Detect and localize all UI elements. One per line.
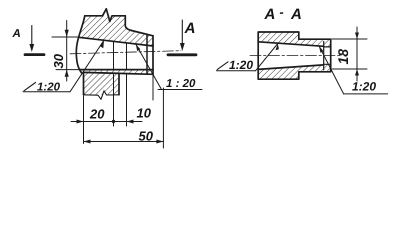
hatch lower region	[80, 70, 153, 95]
hatch section top band	[258, 32, 324, 46]
hatch upper region	[79, 16, 153, 46]
dimension 30 extension bottom	[56, 69, 80, 71]
hatch section bottom-right sliver	[324, 64, 331, 72]
cutting line A left	[25, 53, 44, 56]
svg-text:10: 10	[137, 106, 152, 121]
svg-text:-: -	[279, 5, 283, 20]
svg-text:30: 30	[51, 53, 66, 68]
hole bottom wall	[80, 69, 153, 71]
section outer outline	[258, 32, 331, 79]
svg-text:A: A	[184, 20, 196, 37]
section slope label right 1:20	[319, 46, 388, 94]
cutting line A right	[168, 53, 196, 56]
dimension 18 line with outside arrows	[355, 27, 359, 81]
dimension 18 extensions	[332, 38, 367, 40]
left edge arc	[76, 16, 85, 73]
section slope label left	[216, 44, 279, 72]
arrow A right	[180, 20, 185, 51]
section hole cylindrical top	[324, 46, 331, 48]
svg-text:50: 50	[139, 129, 154, 144]
section hole inner step vertical	[323, 42, 325, 70]
slope label right 1:20 with leader	[136, 44, 202, 90]
boss top sloped edge	[132, 31, 154, 36]
section centerline	[250, 55, 340, 57]
svg-text:1 : 20: 1 : 20	[166, 78, 196, 90]
hatch section bottom band	[258, 65, 324, 79]
bottom break line	[84, 91, 120, 100]
taper end inner edge	[146, 34, 148, 74]
arrow A left	[29, 26, 34, 52]
hole top wall (tapered 1:20)	[79, 37, 153, 46]
lower column right edge	[118, 74, 120, 95]
svg-text:A: A	[12, 28, 21, 40]
boss bottom edge	[84, 72, 154, 74]
section hole top wall	[258, 42, 324, 47]
hatch section top-right sliver	[324, 39, 331, 47]
dimension 50 right extension	[162, 88, 164, 148]
section hole bottom wall	[258, 65, 324, 70]
dimension line 50	[84, 140, 164, 144]
lower column left edge	[83, 72, 85, 94]
svg-text:1:20: 1:20	[352, 80, 376, 94]
right face lower extension	[152, 76, 154, 101]
svg-text:20: 20	[89, 107, 105, 122]
right face	[152, 36, 154, 75]
dimension line 20/10	[71, 120, 142, 124]
svg-text:1:20: 1:20	[229, 58, 253, 72]
top edge with break line	[85, 9, 126, 22]
svg-text:18: 18	[335, 49, 351, 65]
dimension 30 extension top	[52, 36, 79, 38]
centerline axis	[70, 51, 181, 54]
slope label left: angle symbol + 1:20	[23, 40, 104, 93]
dimension 30 line with outside arrows	[65, 21, 69, 82]
dimension 20/10 extension lines	[83, 96, 85, 144]
column right edge	[125, 16, 131, 31]
svg-text:A: A	[290, 6, 302, 23]
section hole cylindrical bottom	[324, 63, 331, 65]
svg-text:A: A	[264, 6, 276, 23]
